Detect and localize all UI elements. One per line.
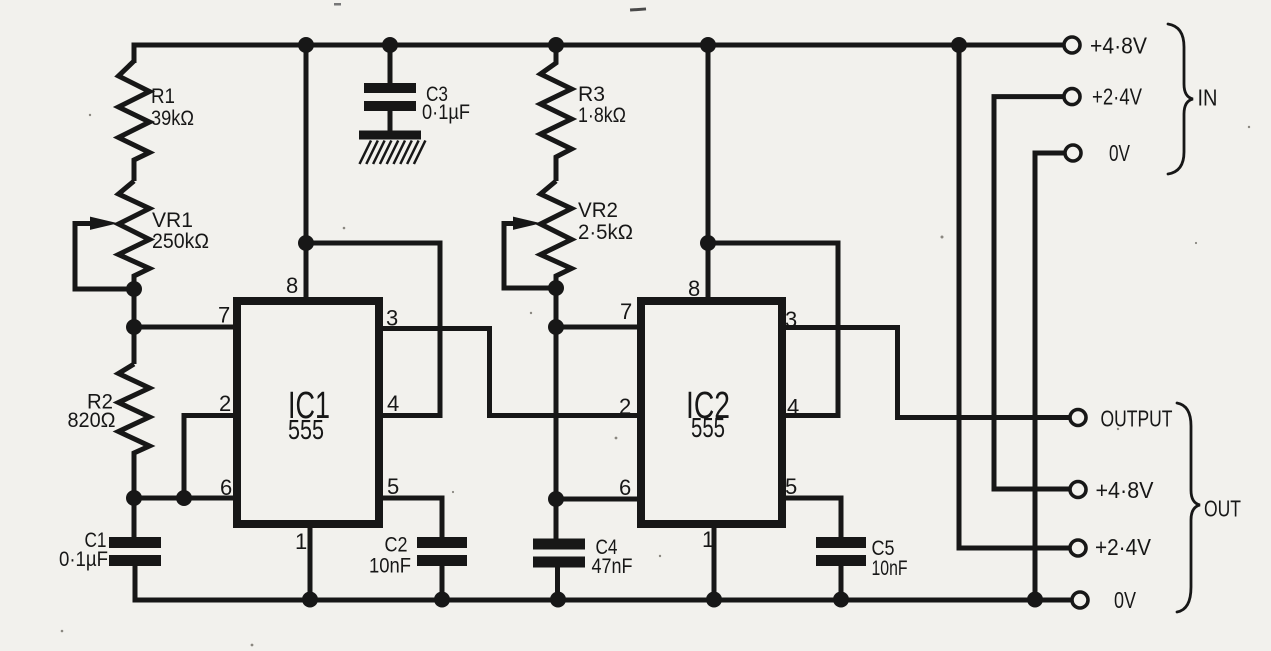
svg-text:7: 7 bbox=[620, 299, 632, 324]
svg-text:R1: R1 bbox=[151, 85, 175, 108]
svg-text:555: 555 bbox=[691, 412, 725, 443]
svg-text:6: 6 bbox=[619, 475, 631, 500]
svg-text:VR2: VR2 bbox=[578, 199, 618, 222]
svg-text:+2·4V: +2·4V bbox=[1095, 534, 1152, 560]
svg-text:2·5kΩ: 2·5kΩ bbox=[578, 221, 633, 244]
svg-text:250kΩ: 250kΩ bbox=[152, 230, 209, 253]
svg-text:4: 4 bbox=[387, 391, 399, 416]
svg-text:1: 1 bbox=[295, 529, 307, 554]
svg-text:47nF: 47nF bbox=[592, 555, 633, 578]
svg-text:8: 8 bbox=[286, 273, 298, 298]
svg-text:4: 4 bbox=[787, 395, 799, 420]
svg-text:3: 3 bbox=[386, 306, 398, 331]
svg-text:555: 555 bbox=[288, 414, 324, 445]
svg-text:OUTPUT: OUTPUT bbox=[1101, 406, 1173, 432]
svg-text:0V: 0V bbox=[1109, 140, 1130, 166]
svg-text:3: 3 bbox=[785, 307, 797, 332]
svg-text:C2: C2 bbox=[385, 534, 408, 557]
svg-text:IN: IN bbox=[1198, 85, 1218, 111]
svg-text:1: 1 bbox=[702, 527, 714, 552]
svg-text:0·1µF: 0·1µF bbox=[59, 548, 108, 571]
svg-text:10nF: 10nF bbox=[872, 557, 908, 580]
svg-text:820Ω: 820Ω bbox=[68, 409, 116, 432]
svg-text:1·8kΩ: 1·8kΩ bbox=[578, 104, 626, 127]
svg-text:5: 5 bbox=[387, 474, 399, 499]
svg-text:39kΩ: 39kΩ bbox=[151, 107, 194, 130]
svg-text:10nF: 10nF bbox=[369, 555, 411, 578]
svg-text:5: 5 bbox=[785, 474, 797, 499]
svg-text:+4·8V: +4·8V bbox=[1096, 477, 1155, 503]
svg-text:8: 8 bbox=[688, 276, 700, 301]
svg-text:+4·8V: +4·8V bbox=[1090, 33, 1148, 59]
svg-text:+2·4V: +2·4V bbox=[1092, 84, 1143, 110]
svg-text:R3: R3 bbox=[578, 83, 605, 106]
svg-text:VR1: VR1 bbox=[152, 209, 193, 232]
svg-text:7: 7 bbox=[218, 303, 230, 328]
svg-text:2: 2 bbox=[219, 391, 231, 416]
svg-text:OUT: OUT bbox=[1204, 496, 1241, 522]
svg-text:2: 2 bbox=[619, 394, 631, 419]
svg-text:0V: 0V bbox=[1114, 587, 1137, 613]
svg-text:0·1µF: 0·1µF bbox=[422, 101, 470, 124]
svg-text:6: 6 bbox=[220, 475, 232, 500]
